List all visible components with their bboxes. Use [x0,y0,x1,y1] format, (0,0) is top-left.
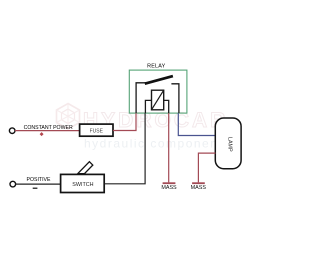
wire lamp to mass 2 [198,153,215,182]
svg-text:hydraulic components: hydraulic components [84,137,231,151]
svg-text:POSITIVE: POSITIVE [27,177,51,183]
terminal constant power [9,128,15,134]
wire fuse to relay pin 30 [113,113,136,130]
svg-text:LAMP: LAMP [227,137,233,152]
relay U1 [129,70,187,113]
svg-text:MASS: MASS [191,185,207,191]
wire relay pin 86 to mass 1 [168,113,170,182]
svg-text:RELAY: RELAY [147,64,165,70]
switch S1 [61,174,105,192]
fuse F1 [80,124,113,136]
relay coil K1 [152,90,164,110]
relay pin 85 lead [145,100,151,113]
svg-text:FUSE: FUSE [90,128,104,134]
wire switch to relay pin 85 [105,113,146,184]
wire positive to switch [16,183,61,185]
relay pin 30 lead [136,83,146,113]
terminal positive [10,181,16,187]
relay pin 87 lead [171,84,179,113]
relay pin 86 lead [164,100,169,113]
node marker (red diamond) [40,132,44,136]
switch lever [78,162,93,174]
svg-text:MASS: MASS [161,185,177,191]
label minus dash [33,187,38,189]
wire relay pin 87 to lamp [178,113,215,135]
ground mass 2 [192,182,205,184]
relay contact blade [145,76,173,84]
svg-text:SWITCH: SWITCH [72,182,93,188]
lamp DS1 [215,118,241,169]
wire constant power to fuse [15,130,80,132]
ground mass 1 [163,182,176,184]
